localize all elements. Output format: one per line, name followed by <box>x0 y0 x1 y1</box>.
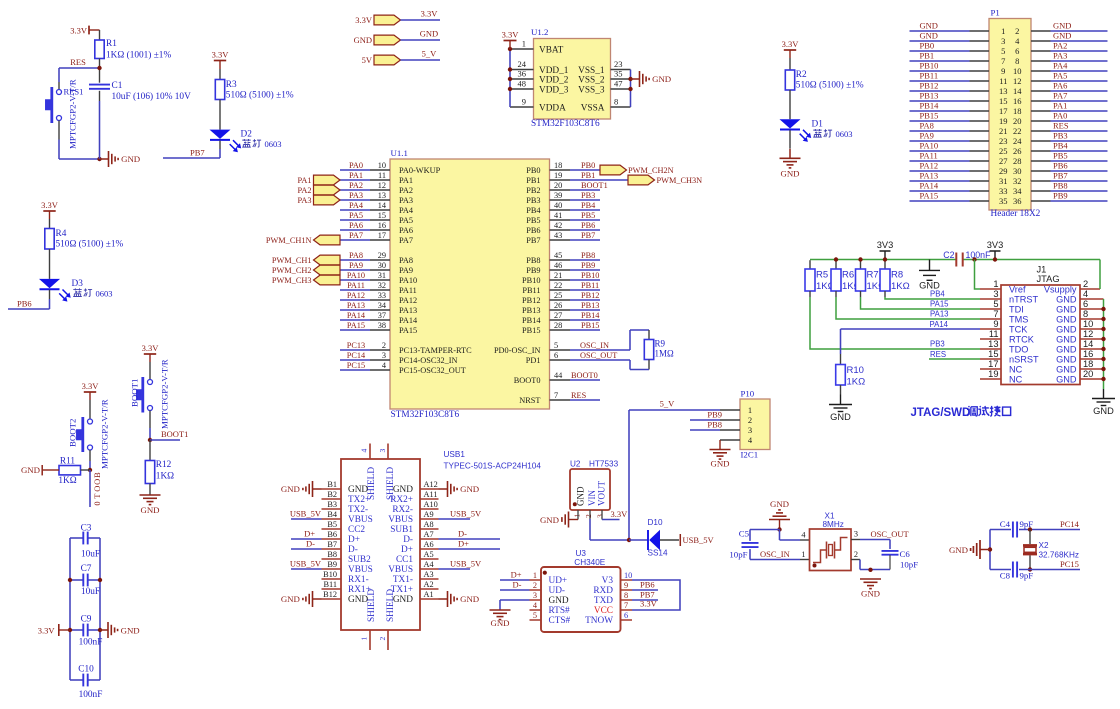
svg-text:PA3: PA3 <box>298 196 312 205</box>
svg-text:BOOT1: BOOT1 <box>581 181 608 190</box>
svg-text:0: 0 <box>92 501 102 505</box>
svg-text:R6: R6 <box>842 270 854 281</box>
svg-text:SUB1: SUB1 <box>390 525 413 535</box>
svg-text:PA10: PA10 <box>920 141 939 151</box>
svg-text:6: 6 <box>554 351 558 360</box>
svg-text:PB5: PB5 <box>526 216 540 225</box>
svg-text:PA10: PA10 <box>347 271 365 280</box>
svg-text:25: 25 <box>999 146 1008 156</box>
svg-text:3: 3 <box>595 514 604 518</box>
svg-text:VSSA: VSSA <box>581 104 605 114</box>
svg-text:1: 1 <box>522 39 526 49</box>
svg-text:25: 25 <box>554 291 562 300</box>
svg-text:0603: 0603 <box>836 129 853 139</box>
svg-text:5: 5 <box>993 299 998 309</box>
svg-text:10: 10 <box>1083 319 1093 329</box>
svg-text:15: 15 <box>378 211 386 220</box>
svg-text:3.3V: 3.3V <box>421 9 439 19</box>
svg-text:9pF: 9pF <box>1020 519 1034 529</box>
svg-text:10uF (106) 10% 10V: 10uF (106) 10% 10V <box>112 91 192 102</box>
svg-text:PB9: PB9 <box>1053 191 1068 201</box>
svg-text:39: 39 <box>554 191 562 200</box>
svg-text:15: 15 <box>999 96 1008 106</box>
svg-text:6: 6 <box>1083 299 1088 309</box>
svg-text:9: 9 <box>522 97 526 107</box>
svg-text:PA6: PA6 <box>349 221 363 230</box>
svg-text:GND: GND <box>1056 365 1077 375</box>
svg-text:2: 2 <box>854 550 858 559</box>
svg-text:9pF: 9pF <box>1020 571 1034 581</box>
svg-text:PA6: PA6 <box>1053 81 1067 91</box>
svg-text:D10: D10 <box>648 518 663 527</box>
svg-text:4: 4 <box>1083 289 1088 299</box>
svg-text:D-: D- <box>306 539 315 549</box>
svg-text:PB11: PB11 <box>522 286 540 295</box>
svg-text:3: 3 <box>378 449 387 453</box>
svg-text:6: 6 <box>624 611 628 620</box>
svg-text:7: 7 <box>1001 56 1005 66</box>
svg-text:3: 3 <box>382 351 386 360</box>
svg-text:TNOW: TNOW <box>585 616 613 626</box>
svg-text:PA10: PA10 <box>399 276 417 285</box>
svg-text:31: 31 <box>999 176 1008 186</box>
svg-text:PA3: PA3 <box>1053 51 1067 61</box>
svg-text:1KΩ: 1KΩ <box>847 377 866 388</box>
svg-text:GND: GND <box>140 505 159 515</box>
svg-text:PA14: PA14 <box>920 181 939 191</box>
svg-text:PC14: PC14 <box>347 351 366 360</box>
svg-text:0603: 0603 <box>265 139 282 149</box>
svg-text:OSC_OUT: OSC_OUT <box>871 529 910 539</box>
svg-text:4: 4 <box>382 361 387 370</box>
svg-text:U3: U3 <box>576 549 587 558</box>
svg-text:8: 8 <box>614 97 618 107</box>
svg-text:35: 35 <box>999 196 1008 206</box>
svg-text:GND: GND <box>490 618 509 628</box>
svg-text:1: 1 <box>572 514 581 518</box>
svg-text:RX2-: RX2- <box>392 505 413 515</box>
svg-text:V3: V3 <box>602 576 614 586</box>
svg-text:36: 36 <box>518 69 527 79</box>
svg-text:43: 43 <box>554 231 562 240</box>
svg-text:3: 3 <box>993 289 998 299</box>
svg-text:D+: D+ <box>511 570 522 580</box>
svg-text:3V3: 3V3 <box>987 240 1004 250</box>
svg-text:PB6: PB6 <box>526 226 540 235</box>
svg-text:B1: B1 <box>327 480 337 489</box>
svg-text:8MHz: 8MHz <box>823 520 844 529</box>
svg-text:19: 19 <box>988 369 998 379</box>
svg-text:12: 12 <box>1083 329 1093 339</box>
svg-text:8: 8 <box>1083 309 1088 319</box>
svg-text:SHIELD: SHIELD <box>367 589 377 622</box>
svg-text:GND: GND <box>540 515 559 525</box>
svg-text:PB12: PB12 <box>522 296 540 305</box>
svg-text:HT7533: HT7533 <box>589 459 619 468</box>
svg-text:3: 3 <box>1001 36 1005 46</box>
svg-text:D-: D- <box>348 545 358 555</box>
svg-text:5V: 5V <box>362 55 373 65</box>
svg-text:PB4: PB4 <box>526 206 541 215</box>
svg-text:A11: A11 <box>424 490 438 499</box>
svg-text:3.3V: 3.3V <box>142 343 160 353</box>
svg-text:B3: B3 <box>327 500 337 509</box>
svg-text:6: 6 <box>1015 46 1019 56</box>
svg-text:GND: GND <box>770 499 789 509</box>
svg-text:2: 2 <box>748 415 752 425</box>
svg-text:RES: RES <box>70 57 86 67</box>
svg-text:30: 30 <box>1013 166 1022 176</box>
svg-text:A8: A8 <box>424 520 434 529</box>
svg-text:32: 32 <box>378 281 386 290</box>
svg-text:GND: GND <box>1056 355 1077 365</box>
svg-text:42: 42 <box>554 221 562 230</box>
svg-text:TMS: TMS <box>1009 315 1028 325</box>
svg-text:R2: R2 <box>796 70 807 80</box>
svg-text:510Ω (5100) ±1%: 510Ω (5100) ±1% <box>226 89 294 100</box>
svg-text:R7: R7 <box>867 270 879 281</box>
svg-text:VBUS: VBUS <box>348 565 373 575</box>
svg-text:PA12: PA12 <box>920 161 939 171</box>
svg-text:C3: C3 <box>81 524 92 534</box>
svg-text:UD+: UD+ <box>549 576 568 586</box>
svg-text:1KΩ: 1KΩ <box>891 281 910 292</box>
svg-text:3: 3 <box>854 530 858 539</box>
svg-text:RES: RES <box>571 391 587 400</box>
svg-text:GND: GND <box>460 594 479 604</box>
svg-text:11: 11 <box>999 76 1007 86</box>
svg-text:MPTCFGP2-V-T/R: MPTCFGP2-V-T/R <box>160 359 170 429</box>
svg-text:PA5: PA5 <box>399 216 413 225</box>
svg-text:4: 4 <box>1015 36 1020 46</box>
svg-text:PB6: PB6 <box>17 298 32 308</box>
svg-text:PB11: PB11 <box>920 71 939 81</box>
svg-text:PA2: PA2 <box>1053 41 1067 51</box>
svg-text:nTRST: nTRST <box>1009 295 1038 305</box>
svg-text:GND: GND <box>830 412 851 422</box>
svg-text:VBUS: VBUS <box>388 565 413 575</box>
svg-text:USB_5V: USB_5V <box>450 559 482 569</box>
svg-text:TDO: TDO <box>1009 345 1028 355</box>
svg-text:PB8: PB8 <box>1053 181 1068 191</box>
svg-text:5_V: 5_V <box>660 399 676 409</box>
svg-text:10: 10 <box>1013 66 1022 76</box>
svg-text:9: 9 <box>1001 66 1005 76</box>
svg-text:GND: GND <box>861 589 880 599</box>
svg-text:GND: GND <box>949 545 968 555</box>
svg-text:1: 1 <box>1001 26 1005 36</box>
svg-text:A5: A5 <box>424 550 434 559</box>
svg-text:3.3V: 3.3V <box>611 509 629 519</box>
svg-text:GND: GND <box>420 29 438 39</box>
svg-text:GND: GND <box>1056 325 1077 335</box>
svg-text:3: 3 <box>533 591 537 600</box>
svg-text:BOOT1: BOOT1 <box>161 429 188 439</box>
svg-text:B10: B10 <box>323 570 337 579</box>
svg-text:1KΩ: 1KΩ <box>156 472 174 482</box>
svg-text:28: 28 <box>1013 156 1022 166</box>
svg-text:3: 3 <box>748 425 752 435</box>
svg-text:B: B <box>92 472 102 478</box>
svg-text:PD1: PD1 <box>526 356 541 365</box>
svg-text:D1: D1 <box>812 120 824 130</box>
svg-text:R5: R5 <box>816 270 828 281</box>
svg-text:P1: P1 <box>991 8 1000 18</box>
svg-text:3.3V: 3.3V <box>212 49 230 59</box>
svg-text:PA8: PA8 <box>349 251 363 260</box>
svg-text:GND: GND <box>652 74 671 84</box>
svg-text:VDD_3: VDD_3 <box>539 86 569 96</box>
svg-text:4: 4 <box>801 530 806 539</box>
svg-text:26: 26 <box>1013 146 1022 156</box>
svg-text:VBUS: VBUS <box>348 515 373 525</box>
svg-text:11: 11 <box>378 171 386 180</box>
svg-text:C7: C7 <box>81 564 92 574</box>
svg-text:BOOT0: BOOT0 <box>514 376 541 385</box>
svg-text:4: 4 <box>360 449 369 453</box>
svg-text:PB7: PB7 <box>190 147 205 157</box>
svg-text:PC13-TAMPER-RTC: PC13-TAMPER-RTC <box>399 346 472 355</box>
svg-text:VOUT: VOUT <box>597 481 607 506</box>
svg-text:PB13: PB13 <box>920 91 939 101</box>
svg-text:24: 24 <box>518 59 527 69</box>
svg-text:VCC: VCC <box>594 606 613 616</box>
svg-text:NC: NC <box>1009 365 1023 375</box>
svg-text:510Ω (5100) ±1%: 510Ω (5100) ±1% <box>56 238 124 249</box>
svg-text:31: 31 <box>378 271 386 280</box>
svg-text:17: 17 <box>999 106 1008 116</box>
svg-text:VSS_3: VSS_3 <box>578 86 605 96</box>
svg-text:VSS_2: VSS_2 <box>578 76 605 86</box>
svg-text:SUB2: SUB2 <box>348 555 371 565</box>
svg-text:Vsupply: Vsupply <box>1044 285 1077 295</box>
svg-text:VIN: VIN <box>587 490 597 506</box>
svg-text:R4: R4 <box>56 229 67 239</box>
svg-text:PB8: PB8 <box>526 256 540 265</box>
svg-text:PA6: PA6 <box>399 226 413 235</box>
svg-text:PB14: PB14 <box>522 316 541 325</box>
svg-text:A6: A6 <box>424 540 434 549</box>
svg-text:3.3V: 3.3V <box>502 29 520 39</box>
svg-text:JTAG/SWD: JTAG/SWD <box>911 407 971 419</box>
svg-text:PB10: PB10 <box>581 271 599 280</box>
svg-text:22: 22 <box>1013 126 1022 136</box>
svg-text:PB9: PB9 <box>707 410 722 420</box>
svg-text:PB10: PB10 <box>920 61 939 71</box>
svg-text:GND: GND <box>1056 305 1077 315</box>
svg-text:D+: D+ <box>458 539 469 549</box>
svg-text:19: 19 <box>554 171 562 180</box>
svg-text:R11: R11 <box>60 457 76 467</box>
svg-text:C6: C6 <box>900 549 911 559</box>
svg-text:R8: R8 <box>891 270 903 281</box>
svg-text:5: 5 <box>1001 46 1005 56</box>
svg-text:PA9: PA9 <box>920 131 934 141</box>
svg-text:STM32F103C8T6: STM32F103C8T6 <box>531 119 600 129</box>
svg-text:C4: C4 <box>1000 519 1011 529</box>
svg-text:PC14-OSC32_IN: PC14-OSC32_IN <box>399 356 458 365</box>
svg-text:3.3V: 3.3V <box>782 39 800 49</box>
svg-text:VDD_2: VDD_2 <box>539 76 569 86</box>
svg-text:PA13: PA13 <box>930 310 949 319</box>
svg-text:A4: A4 <box>424 560 435 569</box>
svg-text:13: 13 <box>999 86 1008 96</box>
svg-text:USB1: USB1 <box>444 450 466 459</box>
svg-text:27: 27 <box>554 311 562 320</box>
svg-text:28: 28 <box>554 321 562 330</box>
svg-text:RTS#: RTS# <box>549 606 570 616</box>
svg-text:2: 2 <box>1015 26 1019 36</box>
svg-text:GND: GND <box>460 484 479 494</box>
svg-text:5: 5 <box>554 341 558 350</box>
svg-text:PB0: PB0 <box>581 161 595 170</box>
svg-text:510Ω (5100) ±1%: 510Ω (5100) ±1% <box>796 79 864 90</box>
svg-text:3V3: 3V3 <box>877 240 894 250</box>
svg-text:T: T <box>92 493 102 499</box>
svg-text:PB15: PB15 <box>920 111 939 121</box>
svg-text:D-: D- <box>513 580 522 590</box>
svg-text:A3: A3 <box>424 570 434 579</box>
svg-text:10: 10 <box>624 571 632 580</box>
svg-text:PB7: PB7 <box>526 236 540 245</box>
svg-text:GND: GND <box>1056 295 1077 305</box>
svg-text:SHIELD: SHIELD <box>367 467 377 500</box>
svg-text:19: 19 <box>999 116 1008 126</box>
svg-text:STM32F103C8T6: STM32F103C8T6 <box>391 410 460 420</box>
svg-text:OSC_IN: OSC_IN <box>760 549 790 559</box>
svg-text:PA7: PA7 <box>349 231 363 240</box>
svg-text:TX2-: TX2- <box>348 505 368 515</box>
svg-text:O: O <box>92 479 102 485</box>
svg-text:nSRST: nSRST <box>1009 355 1039 365</box>
svg-text:U2: U2 <box>570 459 581 468</box>
svg-text:PB1: PB1 <box>526 176 540 185</box>
svg-text:A12: A12 <box>424 480 438 489</box>
svg-text:R12: R12 <box>156 460 172 470</box>
svg-text:PA1: PA1 <box>298 176 312 185</box>
svg-text:PA9: PA9 <box>399 266 413 275</box>
svg-text:20: 20 <box>1013 116 1022 126</box>
svg-text:PB14: PB14 <box>581 311 600 320</box>
svg-text:GND: GND <box>281 594 300 604</box>
svg-text:GND: GND <box>920 31 938 41</box>
svg-text:10: 10 <box>378 161 386 170</box>
svg-text:B4: B4 <box>327 510 338 519</box>
svg-text:PB1: PB1 <box>920 51 935 61</box>
svg-text:PWM_CH3: PWM_CH3 <box>272 276 312 285</box>
svg-text:PA5: PA5 <box>1053 71 1067 81</box>
svg-text:USB_5V: USB_5V <box>290 509 322 519</box>
svg-text:1KΩ: 1KΩ <box>58 476 76 486</box>
svg-text:GND: GND <box>710 459 729 469</box>
svg-text:PB6: PB6 <box>640 580 655 590</box>
svg-text:GND: GND <box>1053 31 1071 41</box>
svg-text:PB13: PB13 <box>581 301 599 310</box>
svg-text:P10: P10 <box>741 389 755 399</box>
svg-text:PB4: PB4 <box>581 201 596 210</box>
svg-text:PA15: PA15 <box>347 321 365 330</box>
svg-text:2: 2 <box>382 341 386 350</box>
svg-text:PA0: PA0 <box>1053 111 1067 121</box>
svg-text:36: 36 <box>1013 196 1022 206</box>
svg-text:PB13: PB13 <box>522 306 540 315</box>
svg-text:VBUS: VBUS <box>388 515 413 525</box>
svg-text:TX1-: TX1- <box>393 575 413 585</box>
svg-text:GND: GND <box>348 485 368 495</box>
svg-text:RTCK: RTCK <box>1009 335 1035 345</box>
svg-text:B8: B8 <box>327 550 337 559</box>
svg-text:14: 14 <box>1013 86 1022 96</box>
svg-text:PB9: PB9 <box>581 261 595 270</box>
svg-text:15: 15 <box>988 349 998 359</box>
svg-text:PA1: PA1 <box>349 171 363 180</box>
svg-text:PB12: PB12 <box>920 81 939 91</box>
svg-text:13: 13 <box>378 191 386 200</box>
svg-text:RES: RES <box>1053 121 1069 131</box>
svg-text:R3: R3 <box>226 80 237 90</box>
svg-text:A10: A10 <box>424 500 438 509</box>
svg-text:PB8: PB8 <box>581 251 595 260</box>
svg-text:CC2: CC2 <box>348 525 365 535</box>
svg-text:CTS#: CTS# <box>549 616 571 626</box>
svg-text:34: 34 <box>1013 186 1022 196</box>
svg-text:10pF: 10pF <box>900 559 918 569</box>
svg-text:MPTCFGP2-V-T/R: MPTCFGP2-V-T/R <box>68 79 78 149</box>
svg-text:A1: A1 <box>424 590 434 599</box>
svg-text:R9: R9 <box>655 339 666 349</box>
svg-text:11: 11 <box>989 329 999 339</box>
svg-text:24: 24 <box>1013 136 1022 146</box>
svg-text:B7: B7 <box>327 540 337 549</box>
svg-text:R1: R1 <box>106 39 117 49</box>
svg-text:29: 29 <box>378 251 386 260</box>
svg-text:MPTCFGP2-V-T/R: MPTCFGP2-V-T/R <box>100 399 110 469</box>
svg-text:X2: X2 <box>1039 541 1049 550</box>
svg-text:USB_5V: USB_5V <box>290 559 322 569</box>
svg-text:I2C1: I2C1 <box>741 450 759 460</box>
svg-text:GND: GND <box>121 625 140 635</box>
svg-text:PB7: PB7 <box>581 231 595 240</box>
svg-text:10uF: 10uF <box>81 550 100 560</box>
svg-text:GND: GND <box>1056 315 1077 325</box>
svg-text:B5: B5 <box>327 520 337 529</box>
svg-text:D+: D+ <box>304 529 315 539</box>
svg-text:PA14: PA14 <box>930 320 949 329</box>
svg-text:PA8: PA8 <box>920 121 934 131</box>
svg-text:PA14: PA14 <box>347 311 366 320</box>
svg-text:12: 12 <box>378 181 386 190</box>
svg-text:SHIELD: SHIELD <box>386 467 396 500</box>
svg-text:BOOT2: BOOT2 <box>68 419 78 447</box>
svg-text:A2: A2 <box>424 580 434 589</box>
svg-text:GND: GND <box>549 596 569 606</box>
svg-text:RES: RES <box>930 350 946 359</box>
svg-text:2: 2 <box>584 514 593 518</box>
svg-text:PA4: PA4 <box>349 201 364 210</box>
svg-text:PB5: PB5 <box>581 211 595 220</box>
svg-text:7: 7 <box>554 391 558 400</box>
svg-text:22: 22 <box>554 281 562 290</box>
svg-text:GND: GND <box>1056 345 1077 355</box>
svg-text:48: 48 <box>518 79 527 89</box>
svg-text:41: 41 <box>554 211 562 220</box>
svg-text:PA7: PA7 <box>399 236 413 245</box>
svg-text:PB10: PB10 <box>522 276 540 285</box>
svg-text:8: 8 <box>624 591 628 600</box>
svg-text:PA7: PA7 <box>1053 91 1067 101</box>
svg-text:A9: A9 <box>424 510 434 519</box>
svg-text:C2: C2 <box>943 250 954 260</box>
